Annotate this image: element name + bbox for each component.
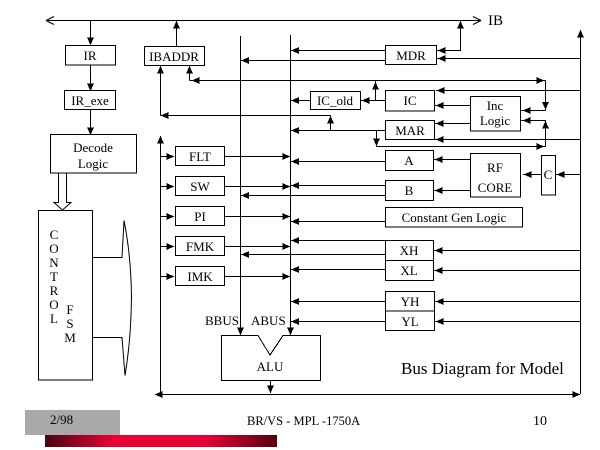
svg-text:MDR: MDR (396, 48, 426, 63)
svg-text:B: B (405, 183, 414, 198)
register IMK (176, 267, 225, 286)
wire right bus to XL (434, 267, 580, 274)
wire bus160 to FMK (161, 243, 175, 250)
block CONTROL FSM (39, 211, 93, 381)
register C (542, 156, 556, 196)
wire XH top corner to ABUS (291, 237, 385, 244)
wire SW to ABUS (225, 183, 290, 190)
register MDR (386, 46, 437, 65)
wire riser into IBADDR bottom left (157, 66, 164, 116)
wire right bus to MAR bottom corner (435, 136, 580, 143)
wire XL to ABUS (291, 266, 385, 273)
register FLT (176, 147, 225, 166)
svg-text:IR_exe: IR_exe (71, 93, 109, 108)
register SW (176, 177, 225, 196)
svg-text:F: F (66, 302, 73, 317)
wire IC output long horizontal to IBADDR and Inc (190, 77, 546, 84)
wire MDR to ABUS (291, 47, 385, 54)
svg-text:RF: RF (487, 160, 503, 175)
wire right bus to C (556, 171, 580, 178)
register XL (386, 261, 434, 281)
svg-text:Decode: Decode (73, 140, 113, 155)
bus BBUS vertical x240 (237, 36, 244, 335)
wire IB to IR (87, 21, 94, 46)
wire bottom bus horizontal (155, 391, 580, 398)
register XH (386, 241, 434, 261)
wire YH to ABUS (291, 298, 385, 305)
svg-text:N: N (49, 255, 59, 270)
wire bus160 to SW (161, 183, 175, 190)
wire IC riser up to IBADDR wire (372, 81, 379, 101)
wire C to RF CORE (523, 171, 541, 178)
wire bus160 to PI (161, 213, 175, 220)
register IC (386, 91, 435, 112)
wire IR_exe to Decode Logic (87, 109, 94, 135)
wire right bus to MDR (437, 55, 580, 62)
hollow arrow Decode to Control (54, 174, 71, 211)
wire IC to IC_old (361, 97, 385, 104)
wire MAR to ABUS (291, 127, 385, 134)
svg-text:R: R (50, 283, 59, 298)
svg-text:Logic: Logic (78, 156, 109, 171)
wire RF CORE to B (434, 187, 470, 194)
svg-text:CORE: CORE (478, 180, 513, 195)
wire IR to IR_exe (87, 65, 94, 91)
wire FMK to ABUS (225, 243, 290, 250)
wire right bus to YL (435, 318, 580, 325)
svg-text:ABUS: ABUS (251, 313, 286, 328)
wire Constant Gen Logic to ABUS (291, 218, 385, 225)
wire Inc Logic to MAR (435, 120, 470, 127)
register A (386, 151, 434, 171)
wire ALU output (267, 381, 274, 393)
wire corner up to Inc Logic lower (542, 120, 549, 147)
register IR_exe (65, 91, 116, 110)
wire Inc Logic to IC (435, 102, 470, 109)
wire right bus to XH (434, 247, 580, 254)
svg-text:Bus Diagram for Model: Bus Diagram for Model (401, 359, 564, 378)
register IBADDR (145, 47, 205, 66)
wire down right corner to Inc Logic upper (542, 81, 549, 111)
register MAR (386, 121, 435, 140)
svg-text:S: S (66, 316, 73, 331)
svg-text:2/98: 2/98 (50, 412, 73, 427)
wire IBADDR to IB bus (173, 21, 180, 46)
register B (386, 181, 434, 201)
register YL (386, 311, 435, 331)
wire right bus to IC top corner (436, 87, 580, 94)
svg-text:Inc: Inc (487, 98, 504, 113)
wire bus160 to FLT (161, 153, 175, 160)
bus right vertical x580 (577, 30, 584, 394)
svg-text:ALU: ALU (257, 359, 284, 374)
svg-text:BR/VS - MPL -1750A: BR/VS - MPL -1750A (247, 414, 360, 428)
svg-text:FMK: FMK (186, 239, 215, 254)
wire junction riser MAR wire up (327, 116, 334, 131)
svg-text:A: A (404, 153, 414, 168)
wire stub into IBADDR bottom right (186, 66, 193, 81)
register IC_old (311, 92, 361, 110)
svg-text:YH: YH (401, 294, 420, 309)
wire MDR to IB riser (437, 21, 464, 54)
svg-text:Logic: Logic (480, 113, 511, 128)
svg-text:FLT: FLT (189, 149, 211, 164)
wire B to ABUS (291, 182, 385, 189)
svg-text:YL: YL (401, 314, 418, 329)
bus left vertical x160 (157, 136, 164, 394)
svg-text:BBUS: BBUS (205, 313, 239, 328)
block Constant Gen Logic (386, 208, 523, 228)
wire MAR branch down (373, 131, 380, 148)
svg-text:IC_old: IC_old (317, 93, 354, 108)
block Inc Logic (471, 97, 521, 132)
svg-text:C: C (50, 227, 59, 242)
svg-text:XH: XH (400, 243, 419, 258)
wire IB bus horizontal (46, 17, 481, 25)
footer red gradient bar (45, 435, 277, 447)
wire IC_old to ABUS (291, 97, 310, 104)
wire MAR branch horizontal to Inc (377, 143, 546, 150)
svg-text:M: M (64, 330, 76, 345)
svg-text:T: T (50, 269, 58, 284)
wire into Inc Logic right upper (521, 107, 546, 114)
svg-text:XL: XL (400, 263, 417, 278)
block arrow control output (92, 221, 132, 376)
svg-text:L: L (50, 311, 58, 326)
wire MAR branch to IBADDR riser (161, 112, 331, 119)
svg-text:IB: IB (488, 13, 503, 29)
wire FLT to ABUS (225, 153, 290, 160)
block RF CORE (471, 154, 521, 198)
wire A to ABUS (291, 158, 385, 165)
svg-text:10: 10 (533, 414, 547, 429)
svg-text:C: C (544, 167, 553, 182)
wire IMK to ABUS (225, 273, 290, 280)
wire right bus to YH (435, 298, 580, 305)
wire XH to BBUS (241, 251, 385, 258)
block Decode Logic (51, 135, 137, 174)
wire into Inc Logic right lower (521, 117, 546, 124)
svg-text:Constant Gen Logic: Constant Gen Logic (402, 210, 507, 225)
block ALU (222, 336, 321, 381)
wire YL to ABUS (291, 318, 385, 325)
register YH (386, 292, 435, 312)
wire RF CORE to A (434, 156, 470, 163)
svg-text:IR: IR (84, 48, 97, 63)
wire B to BBUS (241, 192, 385, 199)
bus ABUS vertical x290 (287, 35, 294, 335)
wire bus160 to IMK (161, 273, 175, 280)
svg-text:SW: SW (190, 179, 210, 194)
svg-text:IBADDR: IBADDR (149, 49, 199, 64)
svg-text:IC: IC (404, 93, 417, 108)
svg-text:IMK: IMK (187, 269, 213, 284)
svg-text:O: O (49, 241, 58, 256)
svg-text:O: O (49, 297, 58, 312)
register PI (176, 207, 225, 226)
wire MDR to BBUS (241, 57, 385, 64)
wire PI to ABUS (225, 213, 290, 220)
svg-text:MAR: MAR (395, 123, 425, 138)
register FMK (176, 237, 225, 256)
svg-text:PI: PI (194, 209, 206, 224)
footer date block (25, 410, 120, 435)
register IR (66, 46, 116, 66)
